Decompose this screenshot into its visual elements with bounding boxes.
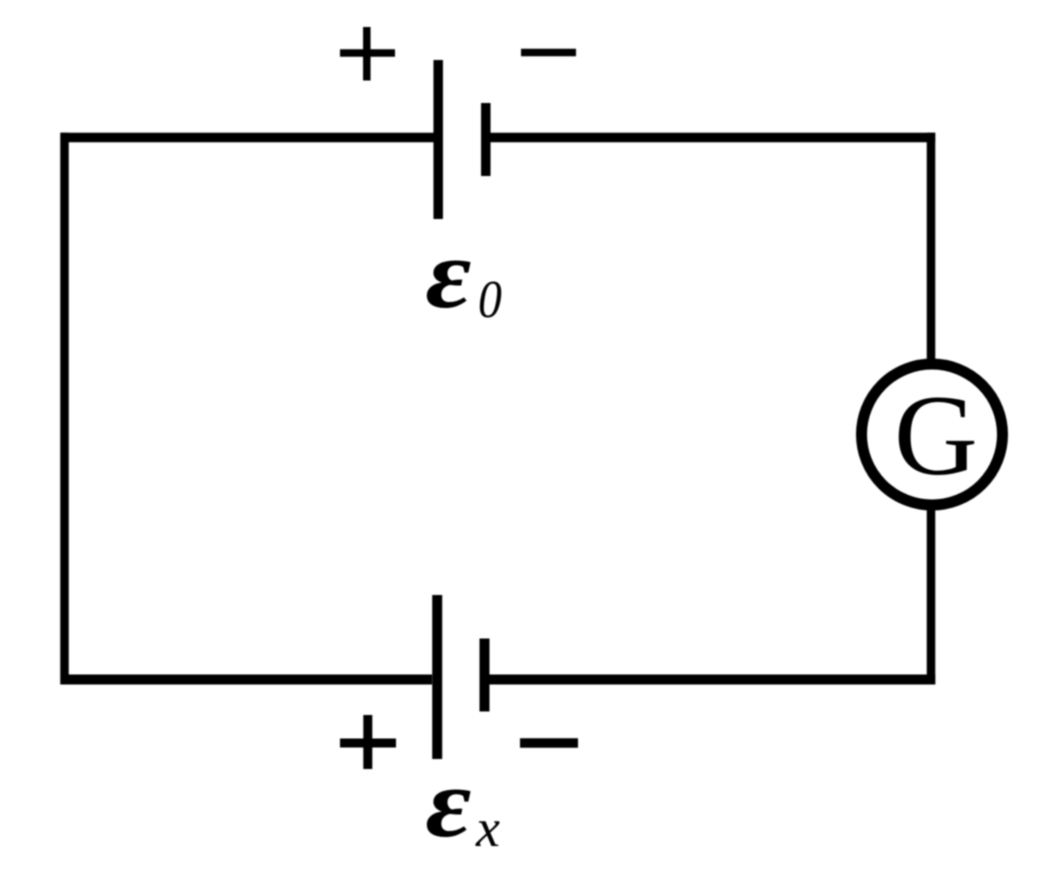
svg-text:ε: ε bbox=[426, 748, 472, 858]
battery Ex long plate (+) bbox=[432, 595, 442, 759]
galvanometer G circle bbox=[862, 364, 1003, 505]
wire top-right segment bbox=[490, 133, 935, 143]
wire bottom-right segment bbox=[490, 675, 936, 685]
svg-text:G: G bbox=[894, 372, 978, 500]
battery Ex short plate (-) bbox=[480, 639, 490, 712]
wire bottom-left segment bbox=[61, 675, 433, 685]
label E0 (emf epsilon-zero) bbox=[426, 219, 502, 329]
wire right vertical lower bbox=[927, 504, 936, 685]
minus sign bottom bbox=[520, 738, 578, 748]
wire right vertical upper bbox=[927, 133, 936, 366]
svg-text:0: 0 bbox=[478, 270, 502, 329]
plus sign bottom bbox=[340, 715, 396, 769]
battery E0 short plate (-) bbox=[481, 103, 491, 176]
wire left vertical bbox=[60, 133, 69, 685]
plus sign top bbox=[340, 27, 395, 81]
minus sign top bbox=[521, 49, 576, 57]
svg-text:x: x bbox=[475, 798, 500, 858]
label Ex (emf epsilon-x) bbox=[426, 748, 501, 858]
battery E0 long plate (+) bbox=[433, 60, 443, 219]
wire top-left segment bbox=[61, 133, 434, 143]
svg-text:ε: ε bbox=[426, 219, 472, 329]
